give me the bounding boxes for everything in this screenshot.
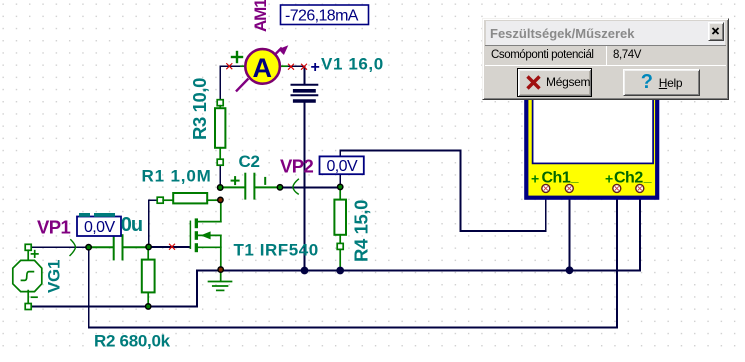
wire battery bottom down to ground net [304, 103, 306, 271]
svg-text:VG1: VG1 [45, 260, 64, 293]
svg-text:+: + [605, 171, 613, 187]
wire R3 bottom to node C2-left [219, 165, 221, 185]
scope terminals [542, 184, 644, 192]
resistor R3 [215, 100, 225, 166]
red x marks [169, 64, 306, 250]
VP1 reading box 0,0V [77, 217, 121, 237]
voltage pin VP2 [293, 179, 299, 194]
wire VG1+ to VP1 node [31, 246, 89, 248]
svg-text:Ch2: Ch2 [614, 169, 643, 186]
transistor T1 (MOSFET) [190, 201, 220, 270]
ammeter AM1 [232, 45, 288, 90]
svg-text:_: _ [643, 168, 652, 184]
wire C1-right node to T1 gate [149, 246, 190, 248]
junction node dots (red/maroon) [218, 197, 224, 272]
svg-text:VP2: VP2 [280, 155, 313, 176]
svg-text:C2: C2 [239, 152, 260, 171]
svg-text:R3 10,0: R3 10,0 [189, 78, 210, 140]
junction node dots (green) [86, 184, 343, 309]
svg-text:R1 1,0M: R1 1,0M [142, 167, 212, 186]
voltage pin VP1 [70, 240, 76, 256]
ammeter reading box -726,18mA [281, 5, 369, 25]
svg-text:-726,18mA: -726,18mA [285, 8, 359, 25]
svg-text:A: A [252, 53, 272, 83]
wire ammeter-left to R3 top (navy) [28, 66, 640, 327]
wire node VP2 to node R4-top (navy) [280, 186, 340, 188]
svg-text:R2 680,0k: R2 680,0k [94, 332, 171, 351]
dialog Feszültségek/Műszerek [482, 18, 729, 100]
generator VG1 [13, 244, 42, 309]
svg-text:R4 15,0: R4 15,0 [351, 200, 372, 262]
capacitor C1 [90, 235, 147, 259]
resistor R4 [334, 190, 346, 268]
junction dots on ground wire (navy) [301, 266, 574, 274]
svg-text:_: _ [570, 168, 579, 184]
svg-text:+: + [531, 171, 539, 187]
wire R1 left to gate node [149, 199, 158, 201]
svg-text:VP1: VP1 [37, 217, 70, 238]
wire VP2 node to scope Ch1+ [339, 151, 341, 188]
battery V1 [292, 85, 318, 101]
wire scope Ch1- down to ground net [569, 193, 571, 270]
wire scope Ch2+ down to VP1 node [616, 193, 618, 328]
oscilloscope body [526, 85, 657, 198]
resistor R1 [157, 193, 219, 203]
wire scope Ch2- down and ground net horizontal run [639, 193, 641, 270]
svg-text:0,0V: 0,0V [84, 219, 115, 236]
svg-text:T1 IRF540: T1 IRF540 [234, 241, 319, 260]
wire ammeter-right to battery top [278, 65, 305, 67]
svg-text:+: + [311, 59, 320, 76]
svg-text:V1 16,0: V1 16,0 [321, 55, 384, 74]
ground [209, 271, 232, 290]
svg-text:0u: 0u [121, 214, 142, 236]
svg-text:AM1: AM1 [251, 0, 270, 32]
resistor R2 [142, 250, 155, 305]
capacitor C2 [221, 174, 279, 199]
svg-text:0,0V: 0,0V [327, 158, 358, 175]
label C1 (covered by box, visible glyph tops and tail "0u") [79, 213, 115, 217]
VP2 reading box 0,0V [320, 156, 364, 175]
scope channel labels [531, 168, 652, 187]
